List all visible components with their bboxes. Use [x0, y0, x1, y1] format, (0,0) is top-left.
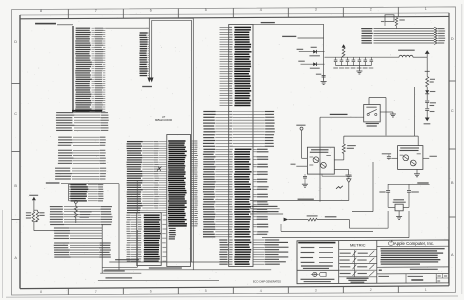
vertical node wire x323	[323, 24, 325, 80]
title block column dividers	[338, 241, 340, 284]
reset switch SW1 box	[364, 105, 381, 122]
bottom rail wire y270	[104, 269, 271, 271]
do not scale drawing label	[301, 265, 333, 266]
switch top wire	[368, 98, 370, 105]
dimensions box rows	[301, 247, 315, 248]
ground below C8	[323, 77, 325, 82]
svg-text:6: 6	[150, 290, 152, 294]
junction annotation mark	[157, 167, 162, 171]
resistor R8	[308, 218, 317, 221]
svg-text:3: 3	[315, 8, 317, 12]
wire from +5V arrow down	[33, 200, 35, 211]
crystal Y1 16MHz	[395, 204, 403, 211]
bottom rail wire y280	[98, 279, 219, 281]
resistor R6	[395, 18, 397, 27]
bus entry label	[142, 86, 152, 87]
title block outline	[297, 240, 449, 284]
video connector wire bundle	[361, 28, 372, 29]
vertical wire x349 with arrow	[348, 183, 350, 201]
wire y231	[281, 230, 373, 232]
resistor R3 value labels	[80, 211, 92, 212]
wire across top of power section	[344, 135, 418, 137]
capacitor C11 below U4	[304, 174, 306, 176]
vertical bus wire x102	[101, 224, 103, 273]
connector J1 pin rows with net labels	[76, 28, 90, 29]
capacitor C8 on node	[322, 74, 326, 76]
zone tick marks right	[449, 80, 456, 82]
svg-text:5: 5	[205, 8, 207, 12]
systems power grounds label	[347, 278, 369, 279]
sheet inner border	[20, 13, 449, 15]
IC U3b lower body	[137, 213, 161, 266]
crystal left branch	[387, 184, 389, 190]
svg-text:8: 8	[40, 290, 42, 294]
wire group G4	[55, 168, 70, 169]
IC U2 left pin wires and labels	[127, 141, 143, 142]
LED DS1	[426, 87, 428, 90]
wire group G1 (address lines)	[56, 112, 73, 113]
page edge shadow bottom	[6, 296, 458, 297]
wire y237 to crystal right	[262, 237, 409, 239]
wire group G3	[58, 150, 72, 151]
capacitor C12 left of U5	[382, 153, 391, 154]
wire CPUCLK from IC U3 to node	[253, 23, 324, 25]
wire reset into switch	[320, 116, 364, 118]
vertical wire reset x320	[319, 117, 321, 201]
svg-text:3: 3	[315, 289, 317, 293]
wire y214 with label	[250, 213, 283, 215]
wire from label to connector J1	[57, 24, 73, 26]
wire group G7	[54, 227, 70, 228]
resistor R7	[343, 136, 345, 144]
crystal right branch	[408, 184, 410, 190]
zone tick marks left	[12, 83, 21, 85]
svg-text:68HC000: 68HC000	[155, 118, 173, 122]
wire PWM to resistor R8	[288, 219, 308, 221]
IC U3 pin rows bottom	[219, 239, 227, 240]
power arrow +5V left	[32, 197, 36, 201]
page edge shadow right	[461, 4, 463, 294]
wire group G5 vertical bus	[68, 184, 70, 201]
wire group G5 rows	[69, 184, 71, 186]
date drawn row	[379, 270, 382, 271]
svg-text:Apple Computer, Inc.: Apple Computer, Inc.	[394, 241, 435, 246]
vertical wire x373	[372, 162, 374, 212]
svg-text:D: D	[451, 37, 454, 41]
IC U3 body	[229, 25, 253, 267]
svg-text:7: 7	[95, 9, 97, 13]
metric table grid	[339, 249, 377, 251]
svg-text:METRIC: METRIC	[350, 242, 366, 247]
decoupling capacitors C1-C7	[335, 57, 337, 60]
capacitor C9	[425, 100, 429, 102]
vertical bus wire x137	[136, 230, 138, 267]
reset switch label	[366, 123, 379, 124]
svg-text:1: 1	[425, 288, 427, 292]
bus name bar (inverted label)	[72, 110, 102, 112]
resistor R1	[32, 212, 35, 222]
wire into U4 left	[302, 157, 308, 159]
svg-text:2: 2	[370, 7, 372, 11]
diode D1	[299, 51, 325, 53]
wire joining R1 R2 to G7 rail	[33, 221, 37, 223]
connector J1 bus label	[35, 23, 56, 25]
svg-text:6: 6	[150, 9, 152, 13]
wire y208 with label	[250, 208, 280, 210]
resistor R1 R2 labels	[26, 212, 31, 213]
polarized capacitor C10	[425, 108, 429, 110]
inductor L1 ferrite bead	[398, 50, 415, 51]
ground arrow bottom of chain	[425, 118, 430, 122]
power driver box U5	[398, 146, 423, 170]
IC U2 upper body	[167, 135, 191, 267]
svg-text:5: 5	[205, 289, 207, 293]
wire from connector J1 top row to bus loop	[105, 27, 149, 29]
ground below crystal Y1	[398, 211, 400, 217]
IC U3 pin rows upper (names inside)	[220, 26, 229, 28]
wire group G2	[58, 137, 72, 138]
test point TP1	[74, 200, 77, 203]
drawing number cells	[405, 274, 407, 283]
wire into U5 top	[417, 136, 419, 146]
bus loop tap labels	[140, 32, 148, 33]
power indicator chain: tick	[426, 57, 428, 76]
net flag PWM	[284, 218, 289, 222]
scan noise specks	[295, 16, 298, 19]
jumper box W1	[385, 15, 394, 22]
svg-text:B: B	[451, 181, 454, 185]
+5V rail to decoupling caps	[325, 56, 400, 58]
bottom rail wire y267	[102, 266, 137, 268]
U4 right exit wires	[334, 159, 344, 161]
bottom rail wire y262	[109, 261, 228, 263]
zone tick marks top	[67, 9, 69, 18]
svg-text:C: C	[14, 112, 17, 116]
svg-text:ECO CHIP GENERATED: ECO CHIP GENERATED	[253, 279, 281, 283]
annotation squiggle	[336, 186, 343, 189]
zone tick marks bottom	[67, 288, 69, 294]
vertical bus wire x119	[118, 184, 120, 270]
+5V output arrow	[425, 50, 430, 54]
ground below U5	[416, 169, 418, 173]
svg-text:C: C	[451, 109, 454, 113]
resistor R2	[37, 210, 39, 212]
svg-text:7: 7	[95, 290, 97, 294]
proprietary notice text lines	[380, 248, 444, 249]
IC U3 pin rows lower	[203, 149, 215, 150]
wire group G8	[54, 242, 69, 243]
svg-text:D: D	[14, 40, 17, 44]
bottom rail wire y273	[100, 272, 141, 274]
bus entry arrows	[148, 78, 152, 83]
notice box outline	[377, 245, 449, 247]
IC U3 pin rows middle (wires crossing right)	[203, 111, 215, 112]
apple logo	[388, 242, 393, 246]
IC U2 upper body sparse lower rows	[169, 228, 176, 229]
wire into lower body top	[136, 181, 138, 213]
svg-text:A: A	[451, 253, 454, 257]
oscillator rail 16M	[388, 183, 430, 185]
svg-text:8: 8	[40, 9, 42, 13]
svg-text:4: 4	[260, 289, 262, 293]
page edge shadow left	[2, 210, 4, 298]
resistor R5	[426, 77, 429, 87]
svg-text:4: 4	[260, 8, 262, 12]
divider under dimensions box	[297, 269, 339, 271]
svg-text:2: 2	[370, 288, 372, 292]
wire PWM continues	[317, 219, 349, 221]
signature rows with slashes	[340, 253, 351, 254]
bus loop wire pair (address bus routing)	[148, 18, 150, 77]
pullup resistor R4 with +5V arrow	[342, 44, 346, 47]
wire EXTCLK y201	[250, 200, 349, 202]
wire VPA with label	[282, 36, 296, 37]
third angle projection symbol	[313, 272, 317, 276]
wire drop to y228	[349, 220, 351, 229]
net label SNDPG wire	[46, 182, 60, 183]
connector J1 body edge	[72, 26, 74, 113]
wire lower link between U4 and U5	[321, 174, 323, 176]
test point TP2 +5V	[300, 127, 303, 130]
power driver box U4	[307, 147, 334, 174]
IC U3b lower pin name rows	[126, 214, 130, 217]
ground right of switch	[380, 111, 393, 113]
dimensions box header	[298, 242, 335, 244]
svg-text:1: 1	[425, 7, 427, 11]
wire group G6	[50, 206, 63, 207]
wire U5 right exit	[423, 157, 429, 159]
IC U2 upper pin name rows	[168, 140, 185, 141]
svg-text:B: B	[14, 184, 17, 188]
IC U2 left pin wires lower sparse	[127, 210, 140, 211]
ground rail under decoupling caps	[336, 65, 372, 67]
svg-text:A: A	[14, 256, 17, 260]
resistor R3 pull-up	[74, 206, 77, 217]
scale products label	[300, 279, 334, 280]
diode D2	[301, 63, 325, 65]
